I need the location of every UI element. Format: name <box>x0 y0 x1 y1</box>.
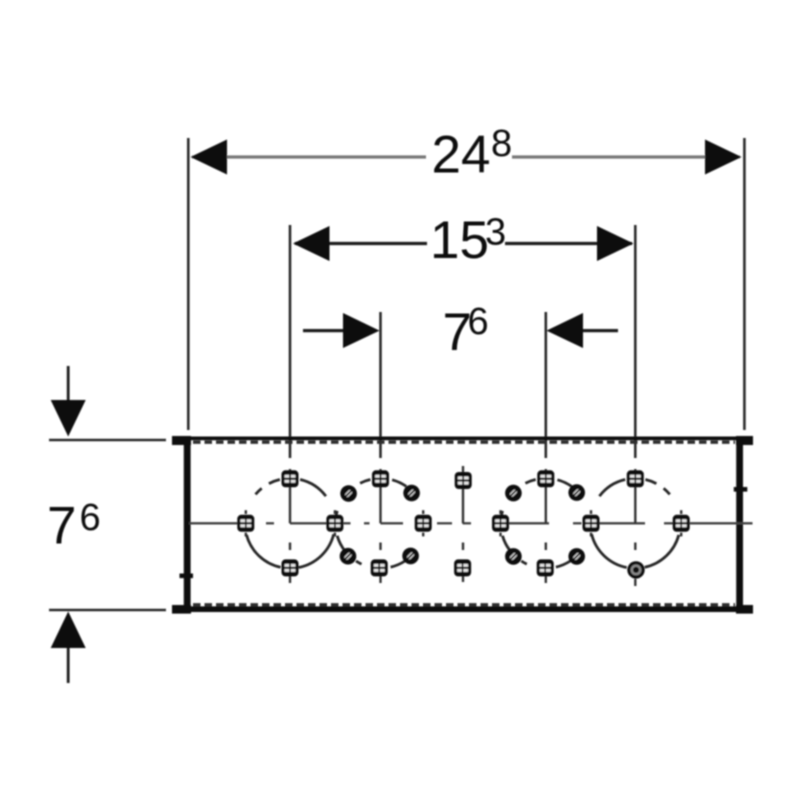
rail right bar joint tick <box>734 487 748 492</box>
svg-text:3: 3 <box>485 212 506 254</box>
rail left end bar <box>184 437 191 612</box>
arrow shaft top (down arrow) <box>67 366 70 404</box>
arrowhead 7.6 inner right (points left) <box>547 313 584 348</box>
svg-text:6: 6 <box>80 497 101 539</box>
centre-line stub through square at x=423.2 <box>422 510 424 536</box>
slot hole B lower-left <box>340 548 357 565</box>
rail left end top cap <box>172 436 191 445</box>
square hole B right <box>415 515 432 532</box>
slot hole C lower-left <box>505 548 522 565</box>
extension line 24.8 right <box>743 138 746 430</box>
svg-text:15: 15 <box>430 211 489 270</box>
dimension line 24.8 overall width <box>192 155 740 158</box>
square hole C/D shared <box>583 515 600 532</box>
square hole A top <box>282 470 299 487</box>
square hole C top <box>537 470 554 487</box>
arrowhead 7.6 inner left (points right) <box>343 313 380 348</box>
square hole B bottom <box>371 559 388 576</box>
rail right end bottom cap <box>736 605 753 614</box>
arrowhead 15.3 right <box>597 226 634 261</box>
round hole D bottom <box>627 561 644 578</box>
arrowhead 24.8 right <box>705 140 742 175</box>
dimension line 15.3 <box>295 242 632 245</box>
vertical centre line group A <box>289 469 291 583</box>
vertical centre line group M <box>462 466 464 582</box>
vertical centre line group C <box>545 469 547 583</box>
arrowhead 15.3 left <box>293 226 330 261</box>
rail right end bar <box>736 437 743 612</box>
vertical centre line group B <box>379 469 381 583</box>
arrowhead down <box>51 400 86 437</box>
arrowhead up <box>51 612 86 649</box>
slot hole B upper-right <box>403 485 420 502</box>
centre-line stub through square at x=591.0 <box>590 510 592 536</box>
extension line 24.8 left <box>187 138 190 430</box>
centre-line stub through square at x=245.8 <box>245 510 247 536</box>
bolt circle arcs group A <box>247 480 334 568</box>
rail left bar joint tick <box>180 574 194 579</box>
square hole C left <box>492 515 509 532</box>
rail right end top cap <box>736 436 753 445</box>
svg-text:6: 6 <box>468 301 489 343</box>
svg-text:8: 8 <box>491 123 512 165</box>
square hole D right <box>673 515 690 532</box>
svg-text:24: 24 <box>432 126 491 185</box>
square hole A bottom <box>282 559 299 576</box>
svg-text:7: 7 <box>47 496 76 555</box>
slot hole C upper-left <box>505 485 522 502</box>
square hole middle bottom <box>454 559 471 576</box>
vertical centre line group D <box>634 469 636 586</box>
arrowhead 24.8 left <box>191 140 228 175</box>
square hole A left <box>237 515 254 532</box>
reference line top (left 7.6 dim) <box>49 439 166 442</box>
horizontal centre line of rail (dash-dot segments) <box>189 522 753 524</box>
centre-line stub through square at x=681.2 <box>680 510 682 536</box>
rail body top serration teeth <box>193 441 735 444</box>
centre-line stub through square at x=334.9 <box>334 510 336 536</box>
slot hole B upper-left <box>340 485 357 502</box>
square hole A/B shared <box>326 515 343 532</box>
bolt circle arcs group B <box>336 480 407 568</box>
slot hole C lower-right <box>568 548 585 565</box>
arrow shaft bottom (up arrow) <box>67 646 70 683</box>
extension line 15.3 left <box>289 225 292 458</box>
centre-line stub through square at x=500.5 <box>499 510 501 536</box>
bolt circle arcs group C <box>501 480 572 568</box>
extension line 7.6 left <box>379 312 382 458</box>
square hole D top <box>627 470 644 487</box>
rail body bottom edge line <box>186 606 741 612</box>
extension line 7.6 right <box>544 312 547 458</box>
bolt circle arcs group D <box>592 480 679 568</box>
square hole C bottom <box>537 559 554 576</box>
square hole B top <box>372 470 389 487</box>
rail left end bottom cap <box>172 605 191 614</box>
slot hole C upper-right <box>568 484 585 501</box>
rail body top edge line <box>186 436 741 440</box>
extension line 15.3 right <box>634 225 637 458</box>
slot hole B lower-right <box>402 548 419 565</box>
reference line bottom (left 7.6 dim) <box>49 609 166 612</box>
dimension line 7.6 inner right part <box>578 329 618 332</box>
square hole middle top <box>455 472 472 489</box>
rail body bottom serration teeth <box>193 603 735 606</box>
dimension line 7.6 inner left part <box>303 329 348 332</box>
